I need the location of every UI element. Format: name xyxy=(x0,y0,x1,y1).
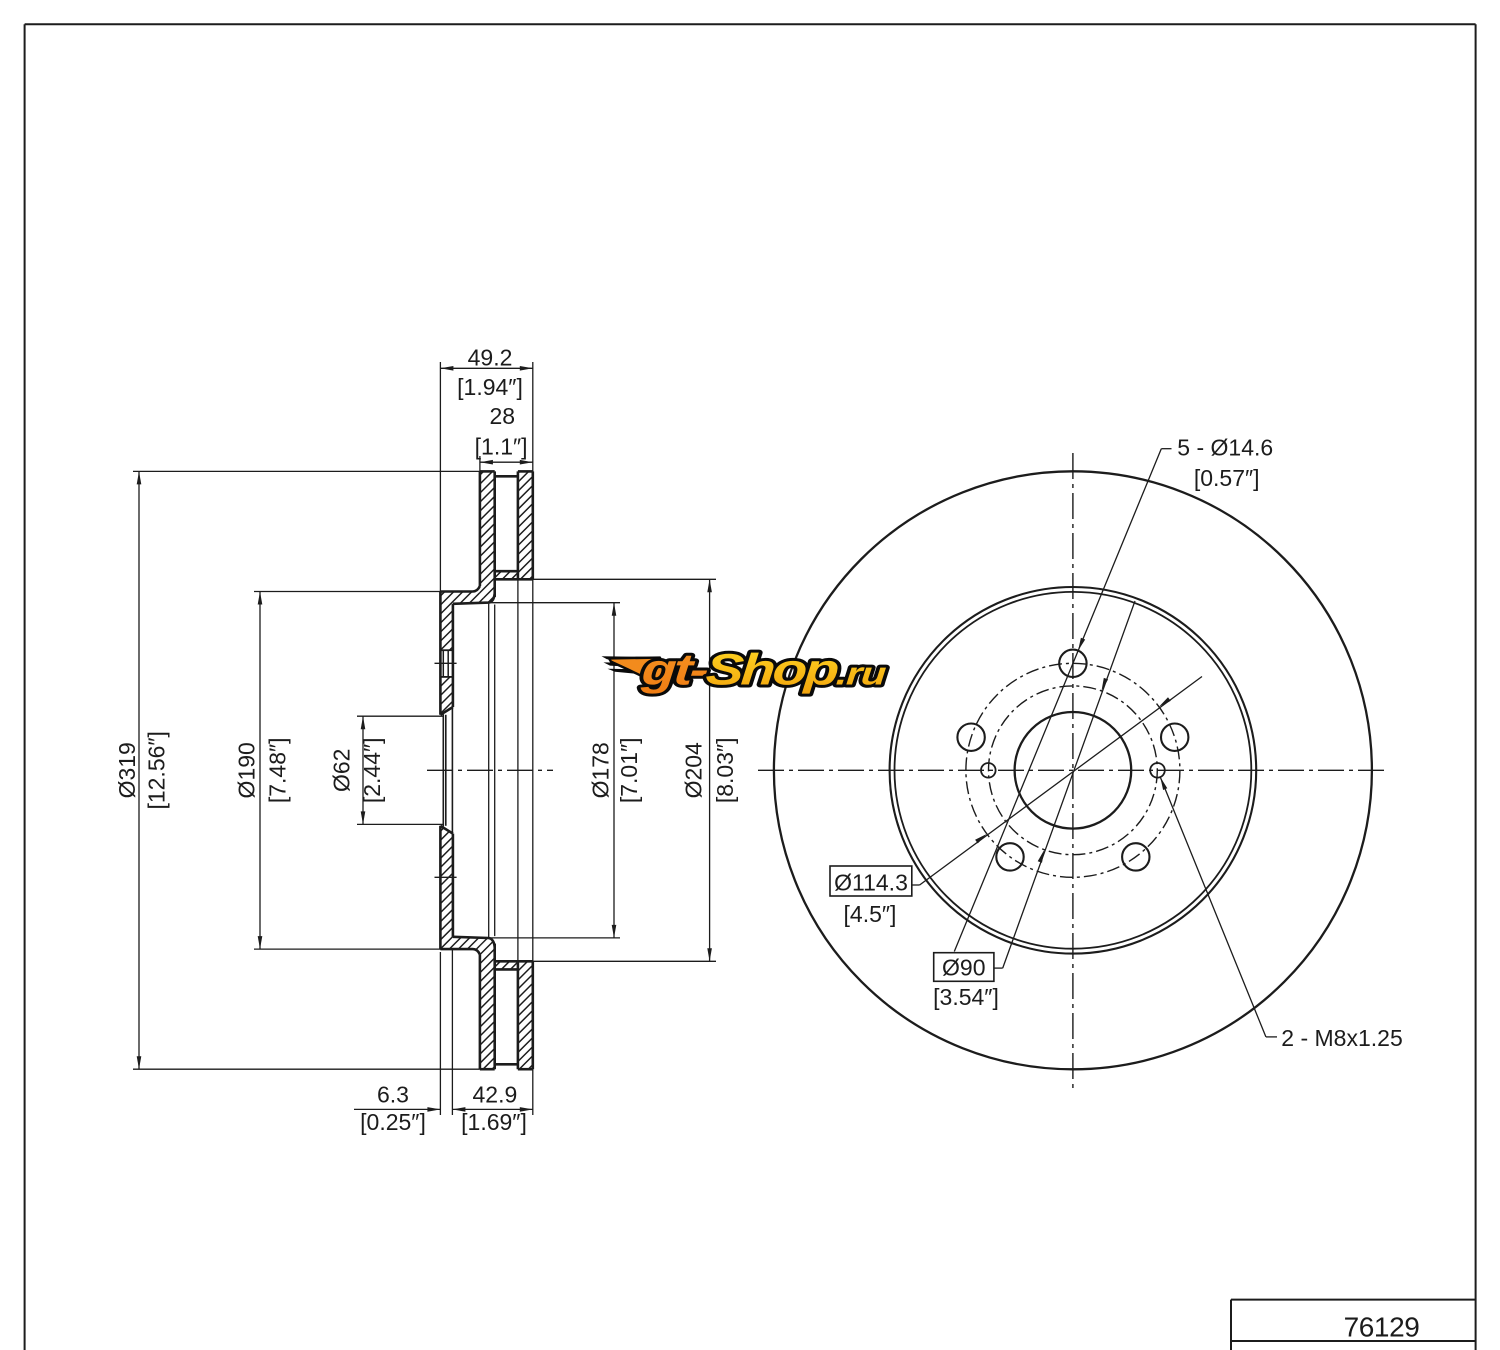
svg-text:[1.1″]: [1.1″] xyxy=(475,433,528,459)
svg-text:Ø204: Ø204 xyxy=(680,742,706,798)
svg-text:[0.25″]: [0.25″] xyxy=(360,1109,426,1135)
svg-text:2 - M8x1.25: 2 - M8x1.25 xyxy=(1281,1025,1402,1051)
svg-text:6.3: 6.3 xyxy=(377,1082,409,1108)
svg-text:[1.69″]: [1.69″] xyxy=(461,1109,527,1135)
svg-text:49.2: 49.2 xyxy=(468,345,513,371)
svg-text:Ø114.3: Ø114.3 xyxy=(834,870,908,896)
svg-text:[7.48″]: [7.48″] xyxy=(265,737,291,803)
svg-text:Ø90: Ø90 xyxy=(942,955,985,981)
svg-text:[12.56″]: [12.56″] xyxy=(144,731,170,809)
svg-text:5 - Ø14.6: 5 - Ø14.6 xyxy=(1177,435,1273,461)
svg-text:[7.01″]: [7.01″] xyxy=(616,737,642,803)
svg-text:76129: 76129 xyxy=(1344,1311,1420,1342)
svg-text:[0.57″]: [0.57″] xyxy=(1194,465,1260,491)
svg-text:Ø62: Ø62 xyxy=(328,749,354,792)
svg-text:Ø190: Ø190 xyxy=(234,742,260,798)
svg-text:28: 28 xyxy=(490,403,516,429)
svg-text:[3.54″]: [3.54″] xyxy=(933,984,999,1010)
svg-text:[1.94″]: [1.94″] xyxy=(457,374,523,400)
svg-text:Ø178: Ø178 xyxy=(587,742,613,798)
svg-text:[8.03″]: [8.03″] xyxy=(712,737,738,803)
svg-text:Ø319: Ø319 xyxy=(114,742,140,798)
svg-text:[4.5″]: [4.5″] xyxy=(844,901,897,927)
svg-text:42.9: 42.9 xyxy=(473,1082,518,1108)
svg-text:[2.44″]: [2.44″] xyxy=(359,737,385,803)
